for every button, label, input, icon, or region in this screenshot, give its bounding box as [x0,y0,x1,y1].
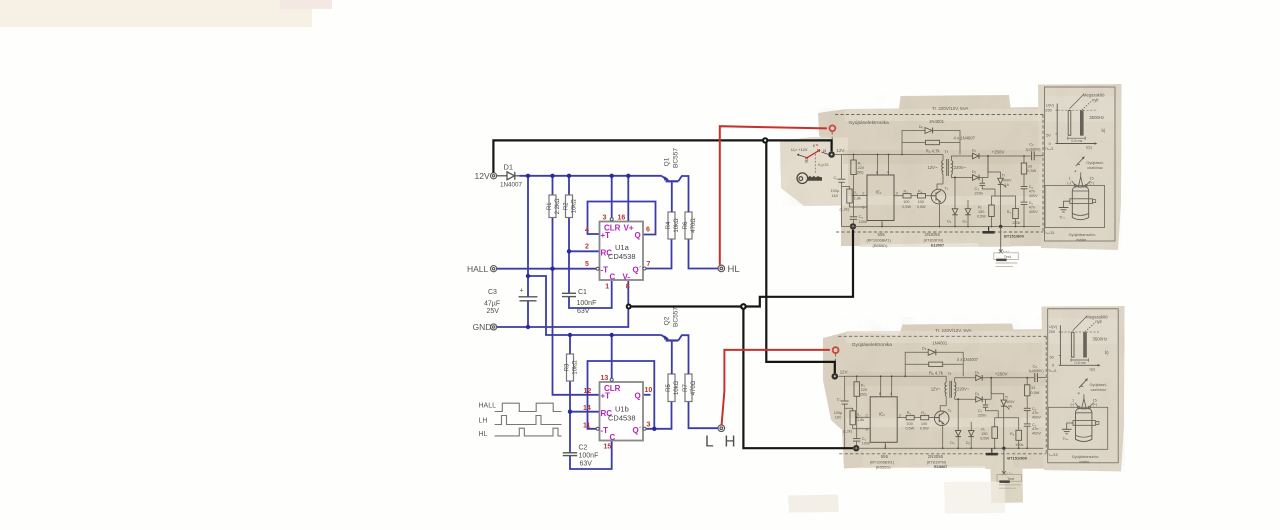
terminal HL [718,265,725,272]
terminal 12V [491,173,497,179]
capacitor C3 electrolytic [519,297,538,301]
svg-text:R3: R3 [565,363,571,371]
wire Q' pin9 to R5 [646,402,671,429]
svg-text:D1: D1 [504,162,514,171]
wire black GND branch to bottom module [743,307,853,449]
svg-text:4: 4 [585,227,589,234]
top module ink [828,87,1115,266]
wire Q' pin7 to R4 [646,239,671,269]
svg-text:R4: R4 [666,221,672,229]
junction black GND [740,303,747,310]
resistor R6 [685,212,692,239]
wire R7 to LH terminal [689,402,719,429]
svg-text:6: 6 [646,227,650,234]
bottom module grain overlay [810,300,1140,510]
wire R2 column [568,176,570,195]
svg-text:HL: HL [479,431,488,438]
resistor R3 [567,354,574,381]
svg-text:CD4538: CD4538 [608,414,636,423]
svg-text:HL: HL [728,264,740,275]
svg-text:1: 1 [605,284,609,291]
svg-text:470Ω: 470Ω [691,380,697,395]
wire R6 to HL terminal [689,239,719,269]
svg-text:14: 14 [583,405,591,412]
resistor R2 [566,195,573,218]
svg-text:63V: 63V [580,461,593,468]
svg-text:Q: Q [635,231,641,240]
svg-text:Q2: Q2 [664,316,671,325]
svg-text:Q: Q [635,392,641,401]
svg-text:47µF: 47µF [484,301,500,308]
svg-text:470Ω: 470Ω [691,218,697,233]
wire V+ pin16 [627,176,629,222]
svg-text:HALL: HALL [467,264,489,274]
top module grain overlay [770,80,1130,272]
wire black 12V branch to bottom module [766,140,835,373]
wire red HL to top module [720,126,827,265]
capacitor C1 [562,293,576,296]
svg-text:C: C [610,273,616,282]
wire 12V rail (blue) [520,175,662,177]
svg-text:10: 10 [645,387,653,394]
junction dots blue [526,174,657,431]
resistor R7 [685,374,692,402]
scanned cream strip top-left [0,0,312,27]
svg-text:BC557: BC557 [673,148,680,168]
junction GND at pin8 [626,304,632,310]
svg-text:5: 5 [585,261,589,268]
svg-text:+T: +T [601,392,611,401]
wire Q pin10 stub [643,394,651,396]
svg-text:R1: R1 [547,202,553,210]
wire black 12V to top module [493,140,831,172]
wire black GND to top module [629,230,853,307]
svg-text:R5: R5 [666,384,672,392]
svg-text:3: 3 [647,422,651,429]
svg-text:Q´: Q´ [633,266,642,275]
top module scanned paper [780,84,1122,250]
svg-text:7: 7 [647,261,651,268]
svg-text:10kΩ: 10kΩ [674,380,680,395]
key switch group (top module only) [791,143,829,183]
wire RC pin14 [570,411,600,413]
svg-text:100nF: 100nF [577,300,597,307]
svg-text:HALL: HALL [479,403,497,410]
transistor Q2 BC557 [662,335,689,374]
wire CLR pin13 pull-up [611,335,613,378]
pin bubbles U1b [610,378,613,381]
svg-text:16: 16 [618,215,626,222]
svg-text:-T: -T [601,426,609,435]
svg-text:2: 2 [585,244,589,251]
svg-text:L H: L H [705,433,739,450]
svg-text:10kΩ: 10kΩ [572,199,578,214]
wire GND net / pin8 [497,281,629,327]
svg-text:13: 13 [601,375,609,382]
svg-text:R7: R7 [683,384,689,392]
svg-text:C: C [610,433,616,442]
svg-text:Q´: Q´ [633,426,642,435]
svg-text:+T: +T [601,231,611,240]
svg-text:25V: 25V [487,308,500,315]
svg-text:GND: GND [473,322,492,332]
op IC U1a CD4538 [600,222,644,281]
transistor Q1 BC557 [662,176,689,212]
svg-text:V-: V- [623,273,631,282]
svg-text:R6: R6 [683,221,689,229]
svg-text:R2: R2 [564,202,570,210]
svg-text:1N4007: 1N4007 [500,182,523,189]
resistor R5 [668,374,675,402]
wire CLR pin3 pull-up [611,176,613,218]
bottom module ink [832,309,1119,488]
wire R3 column [569,335,571,354]
wire U1a +T to Q feedback loop [588,202,656,235]
svg-text:3: 3 [603,215,607,222]
svg-text:12V: 12V [475,171,490,181]
resistor R1 [549,195,556,218]
wire HALL input [497,268,597,270]
junction black 12V [762,137,768,143]
svg-text:U1a: U1a [615,243,630,252]
pink smudge top [280,0,332,9]
IC U1b CD4538 [600,382,644,441]
svg-text:100nF: 100nF [579,453,599,460]
wire red LH to bottom module [722,350,830,425]
svg-text:U1b: U1b [615,405,629,414]
wire C3 supply drop [527,176,529,276]
svg-text:LH: LH [479,418,488,425]
svg-text:11: 11 [583,423,591,430]
bottom module scanned paper [788,306,1125,514]
svg-text:CD4538: CD4538 [608,252,636,261]
wire R1 column / HALL pullup to pin12 [552,176,554,195]
wire U1b -T to Q' feedback loop [588,361,655,429]
wire 12V feed to lower half [528,276,662,335]
svg-text:8: 8 [626,284,630,291]
svg-text:2.2kΩ: 2.2kΩ [555,198,561,214]
wire C2 bottom to pin15 [570,441,612,470]
svg-text:+: + [520,288,524,295]
svg-text:V+: V+ [624,224,634,233]
diode D1 [497,172,520,180]
svg-text:C2: C2 [579,445,588,452]
pin bubbles U1a [610,218,613,221]
resistor R4 [668,212,675,239]
svg-text:15: 15 [604,444,612,451]
svg-text:-T: -T [601,266,609,275]
svg-text:10kΩ: 10kΩ [573,360,579,375]
svg-text:12: 12 [584,388,592,395]
wire RC pin2 [569,250,600,252]
svg-text:Q1: Q1 [664,157,671,166]
terminal GND [491,324,497,330]
svg-text:C1: C1 [578,289,587,296]
svg-text:10kΩ: 10kΩ [674,218,680,233]
svg-text:C3: C3 [488,289,497,296]
svg-text:63V: 63V [577,308,590,315]
terminal LH [718,425,725,432]
svg-text:BC557: BC557 [673,307,680,327]
terminal HALL [491,266,497,272]
wire C1 bottom to pin1 [569,281,612,308]
capacitor C2 [563,453,577,456]
